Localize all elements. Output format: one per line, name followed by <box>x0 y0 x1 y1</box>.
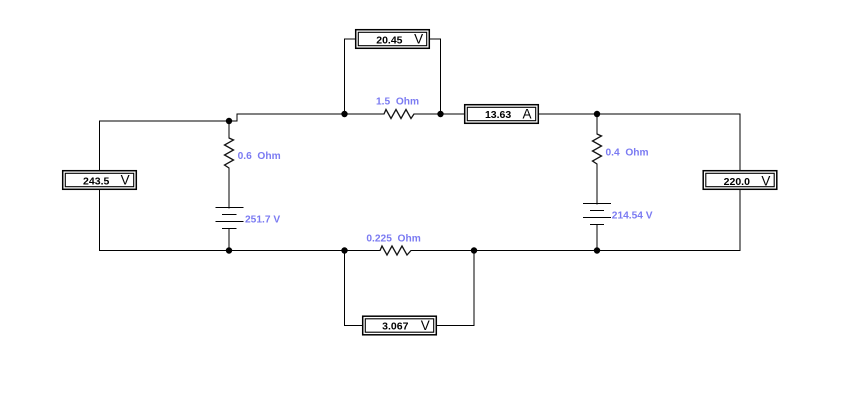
node H (right branch bottom) <box>594 247 600 253</box>
wire left branch middle (R2 to battery V1) <box>228 168 230 208</box>
value label 251.7 V <box>245 215 280 226</box>
wire bottom voltmeter right lead <box>436 251 474 326</box>
wire top-left horizontal (node A to left corner) <box>100 120 229 122</box>
svg-text:A: A <box>522 107 531 122</box>
value label 0.6 Ohm <box>238 151 281 162</box>
svg-text:214.54 V: 214.54 V <box>612 211 653 222</box>
svg-text:251.7 V: 251.7 V <box>245 215 280 226</box>
voltmeter M1 (20.45 V, top) <box>355 29 430 49</box>
svg-text:1.5 Ohm: 1.5 Ohm <box>376 97 419 108</box>
ammeter M2 (13.63 A, top row) <box>464 104 539 124</box>
node D (right branch top) <box>594 111 600 117</box>
battery V1 251.7 V (left branch) <box>215 208 243 229</box>
svg-text:V: V <box>414 32 423 47</box>
svg-text:3.067: 3.067 <box>382 321 408 333</box>
value label 214.54 V <box>612 211 653 222</box>
svg-text:V: V <box>421 318 430 333</box>
svg-text:220.0: 220.0 <box>724 176 750 188</box>
wire left vertical (through voltmeter M3) <box>99 121 101 251</box>
wire right branch upper (node D to R3) <box>596 114 598 134</box>
svg-text:13.63: 13.63 <box>485 109 511 121</box>
wire top row right of resistor R1 <box>414 113 740 115</box>
node E (left branch bottom) <box>226 247 232 253</box>
value label 0.4 Ohm <box>606 147 649 158</box>
node A (left T-junction) <box>226 118 232 124</box>
svg-text:20.45: 20.45 <box>376 34 402 46</box>
svg-text:0.6 Ohm: 0.6 Ohm <box>238 151 281 162</box>
wire jog from node A up to top row <box>229 114 384 121</box>
wire top voltmeter right lead <box>429 39 441 114</box>
node F (bottom resistor left) <box>341 247 347 253</box>
wire bottom-left segment <box>100 250 380 252</box>
svg-text:0.225 Ohm: 0.225 Ohm <box>366 234 420 245</box>
svg-text:243.5: 243.5 <box>83 175 109 187</box>
resistor R1 1.5 Ohm (top, horizontal zigzag) <box>384 110 414 119</box>
wire left branch upper (node A to R2) <box>228 121 230 138</box>
wire right branch lower (battery V2 to node H) <box>596 225 598 251</box>
value label 0.225 Ohm <box>366 234 420 245</box>
node G (bottom resistor right) <box>471 247 477 253</box>
svg-text:V: V <box>121 173 130 188</box>
resistor R3 0.4 Ohm (right branch, vertical zigzag) <box>593 134 602 164</box>
voltmeter M5 (3.067 V, bottom) <box>362 316 437 336</box>
battery V2 214.54 V (right branch) <box>583 204 611 225</box>
svg-text:0.4 Ohm: 0.4 Ohm <box>606 147 649 158</box>
node B (top resistor left) <box>341 111 347 117</box>
value label 1.5 Ohm <box>376 97 419 108</box>
wire right branch middle (R3 to battery V2) <box>596 164 598 204</box>
voltmeter M4 (220.0 V, right) <box>703 170 778 190</box>
resistor R4 0.225 Ohm (bottom, horizontal zigzag) <box>380 246 411 255</box>
wire top voltmeter left lead <box>345 39 357 114</box>
resistor R2 0.6 Ohm (left branch, vertical zigzag) <box>225 138 234 168</box>
wire bottom voltmeter left lead <box>345 251 364 326</box>
svg-text:V: V <box>761 173 770 188</box>
voltmeter M3 (243.5 V, left) <box>62 170 137 190</box>
wire right vertical (through voltmeter M4) <box>739 114 741 251</box>
wire left branch lower (battery V1 to node E) <box>228 229 230 251</box>
wire bottom-right segment <box>411 250 740 252</box>
node C (top resistor right) <box>437 111 443 117</box>
